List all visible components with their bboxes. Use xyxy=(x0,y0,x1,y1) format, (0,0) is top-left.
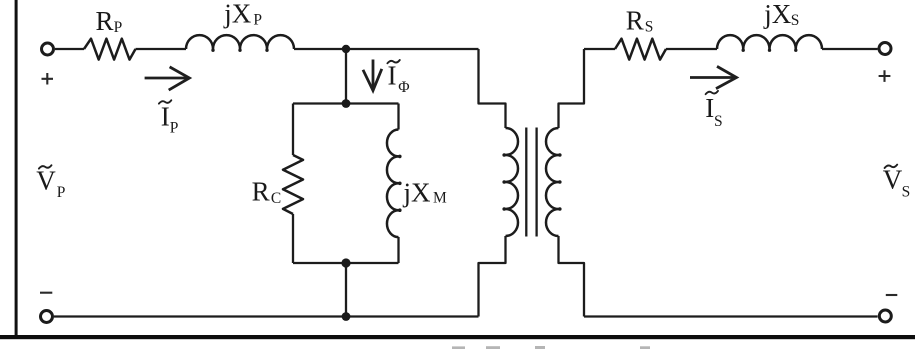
svg-text:S: S xyxy=(791,12,800,29)
svg-text:I: I xyxy=(388,60,397,90)
svg-text:Φ: Φ xyxy=(398,79,409,96)
svg-text:S: S xyxy=(645,19,654,36)
svg-text:I: I xyxy=(705,93,714,123)
svg-text:M: M xyxy=(433,190,447,207)
svg-text:P: P xyxy=(114,19,123,36)
svg-text:C: C xyxy=(271,190,281,207)
svg-text:R: R xyxy=(96,6,114,36)
svg-text:S: S xyxy=(902,184,911,201)
svg-text:S: S xyxy=(714,113,723,130)
svg-text:P: P xyxy=(253,11,262,28)
svg-text:P: P xyxy=(170,120,179,137)
svg-text:I: I xyxy=(161,101,170,131)
svg-text:V: V xyxy=(883,165,903,195)
svg-text:jX: jX xyxy=(763,0,792,29)
svg-text:V: V xyxy=(36,165,56,195)
svg-text:P: P xyxy=(57,184,66,201)
svg-text:jX: jX xyxy=(223,0,252,28)
svg-text:R: R xyxy=(252,177,270,207)
svg-text:R: R xyxy=(626,6,644,36)
svg-text:jX: jX xyxy=(403,178,432,208)
